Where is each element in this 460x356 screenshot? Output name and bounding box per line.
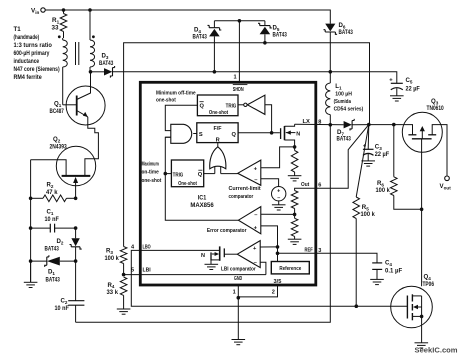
svg-text:(handmade): (handmade)	[14, 34, 40, 41]
wire node to C5	[330, 72, 397, 84]
diode D3 BAT43	[91, 71, 105, 73]
svg-text:+: +	[389, 78, 393, 84]
wire error + input to REF	[261, 226, 278, 262]
comparator LBI	[237, 241, 260, 268]
ground R4	[117, 308, 131, 310]
svg-text:BAT43: BAT43	[337, 136, 352, 143]
svg-text:GND: GND	[234, 276, 242, 282]
node junction ground pins	[237, 296, 241, 300]
node junction R6 top	[392, 123, 396, 127]
transistor Q4 TP06	[391, 286, 433, 328]
svg-text:one-shot: one-shot	[142, 178, 162, 184]
wire Vin top rail	[45, 10, 330, 24]
svg-text:0.1 µF: 0.1 µF	[385, 267, 402, 274]
IC U1 MAX856 boundary	[140, 82, 315, 285]
svg-text:CD54 series): CD54 series)	[334, 107, 364, 113]
wire REF pin 3 to C4	[316, 253, 377, 263]
svg-text:BAT43: BAT43	[193, 34, 208, 41]
node junction D4 anode D3	[213, 70, 217, 74]
wire LBI comparator + input	[260, 246, 277, 248]
svg-text:Q: Q	[231, 132, 236, 138]
node junction divider mid	[293, 213, 297, 217]
svg-text:6: 6	[318, 182, 321, 188]
svg-text:LBI comparator: LBI comparator	[221, 267, 256, 273]
wire REF out	[278, 252, 316, 254]
svg-text:BAT43: BAT43	[99, 60, 114, 67]
node junction R5 bottom Q4 gate	[355, 304, 359, 308]
wire LX pin 8	[295, 123, 344, 126]
ground internal sense resistor	[288, 175, 302, 177]
svg-text:IC1: IC1	[198, 196, 207, 202]
svg-text:TRIG: TRIG	[173, 172, 184, 178]
svg-text:10 nF: 10 nF	[55, 305, 70, 312]
resistor R4 33k	[120, 277, 127, 295]
svg-text:1:3 turns ratio: 1:3 turns ratio	[14, 42, 53, 49]
transformer T1 phasing dot secondary	[92, 35, 95, 38]
current source	[272, 187, 286, 201]
diode D6 BAT43	[325, 24, 335, 32]
OR gate U1d	[210, 147, 226, 169]
svg-text:1: 1	[234, 75, 237, 81]
svg-text:N: N	[201, 253, 205, 259]
flip-flop F/F box	[197, 123, 238, 143]
svg-text:Q: Q	[198, 172, 203, 178]
transistor Q2 2N4393	[56, 146, 95, 185]
svg-text:RM4 ferrite: RM4 ferrite	[14, 74, 43, 81]
svg-text:100 µH: 100 µH	[335, 92, 352, 98]
svg-text:REF: REF	[305, 247, 314, 253]
svg-text:Reference: Reference	[279, 266, 301, 272]
svg-text:Q: Q	[200, 104, 205, 110]
inverter U1b	[244, 103, 247, 106]
node junction R3 R4 LBI	[122, 273, 126, 277]
wire error - input	[261, 213, 295, 215]
svg-text:Out: Out	[301, 182, 309, 188]
svg-text:TN0610: TN0610	[427, 105, 445, 112]
svg-text:8: 8	[318, 120, 321, 126]
resistor R3 100k	[120, 247, 127, 264]
svg-text:LBO: LBO	[143, 245, 152, 251]
ground divider	[288, 238, 302, 240]
resistor divider top	[291, 191, 298, 209]
diode D4 BAT43	[213, 21, 215, 28]
node junction REF top	[276, 245, 280, 249]
ground Q4 source	[415, 342, 429, 344]
node junction D5 anode	[263, 41, 267, 45]
transistor internal LBO N MOSFET	[219, 246, 221, 260]
node junction D1 left	[29, 259, 33, 263]
wire output node to Q3	[369, 124, 403, 126]
wire max one-shot Q to OR	[204, 173, 215, 175]
resistor divider bottom	[294, 214, 296, 218]
wire Q3 to Vout terminal	[441, 125, 447, 176]
svg-text:3/5: 3/5	[274, 279, 282, 285]
terminal Vin	[41, 8, 45, 12]
wire left rail	[30, 160, 32, 282]
svg-text:Minimum off-time: Minimum off-time	[156, 90, 196, 96]
node junction TRIG	[164, 172, 168, 176]
svg-text:One-shot: One-shot	[178, 181, 197, 187]
node junction output node	[367, 123, 371, 127]
resistor R1 33	[63, 10, 65, 14]
capacitor C3 22uF	[367, 125, 370, 150]
svg-text:–: –	[277, 195, 280, 201]
transformer T1 primary winding	[62, 38, 64, 40]
svg-text:1: 1	[233, 289, 236, 295]
transistor internal N switch	[280, 128, 282, 139]
node junction LX L1	[329, 123, 333, 127]
wire Q1 emitter to Q2 drain	[85, 117, 99, 175]
svg-text:BAT43: BAT43	[339, 29, 354, 36]
capacitor C1 10nF	[31, 227, 51, 229]
svg-text:22 µF: 22 µF	[406, 86, 421, 93]
svg-text:TRIG: TRIG	[226, 104, 237, 110]
svg-text:3: 3	[318, 248, 321, 254]
transformer T1 core	[75, 42, 77, 65]
svg-text:33: 33	[52, 25, 60, 32]
comparator error	[238, 207, 260, 234]
svg-text:LBI: LBI	[143, 268, 152, 274]
svg-text:2N4393: 2N4393	[50, 144, 68, 151]
wire error comparator to one-shot TRIG and AND	[165, 137, 238, 220]
ground C5	[390, 95, 404, 97]
wire SHDN pin 1	[214, 20, 265, 22]
wire GND pin 1	[237, 285, 239, 298]
svg-text:One-shot: One-shot	[209, 110, 228, 116]
wire Out pin divider	[295, 188, 316, 190]
svg-text:on-time: on-time	[142, 169, 160, 175]
wire output net top Vout rail	[124, 43, 370, 247]
one-shot U1a box	[197, 95, 238, 116]
ground left rail	[30, 261, 32, 282]
svg-text:BAT43: BAT43	[45, 245, 60, 252]
svg-text:SHDN: SHDN	[233, 87, 244, 93]
wire one-shot Q to AND gate	[165, 105, 197, 130]
ground LBO MOSFET	[205, 263, 219, 265]
svg-text:comparator: comparator	[229, 194, 254, 200]
svg-text:N: N	[296, 131, 300, 137]
svg-text:inductance: inductance	[14, 58, 40, 65]
diode D2 BAT43	[71, 238, 79, 246]
svg-text:100 k: 100 k	[361, 211, 376, 218]
AND gate U1c	[171, 124, 192, 143]
wire C2 bottom rail to LX node riser	[76, 125, 331, 322]
transformer T1 secondary winding	[89, 10, 91, 40]
terminal Vout	[445, 176, 450, 181]
svg-text:BAT43: BAT43	[46, 276, 61, 283]
svg-text:600-µH primary: 600-µH primary	[14, 50, 50, 57]
svg-text:one-shot: one-shot	[156, 98, 176, 104]
wire Q2 gate to D2	[75, 228, 77, 238]
svg-text:Current-limit: Current-limit	[229, 186, 261, 192]
node junction charge pump node	[329, 70, 333, 74]
svg-text:BC487: BC487	[50, 108, 65, 115]
ground C4	[370, 278, 384, 280]
svg-text:TP06: TP06	[423, 281, 435, 288]
wire F/F Q to switch gate	[238, 132, 280, 134]
node junction C1 left	[29, 226, 33, 230]
node junction R6 Q3 source rail	[420, 208, 424, 212]
wire current-limit comparator to OR	[221, 173, 238, 175]
wire output node to Out pin	[316, 125, 369, 189]
comparator current-limit	[238, 160, 261, 185]
wire LBI comparator - input	[260, 262, 266, 274]
diode D1 BAT43	[31, 260, 47, 262]
resistor R6 100k	[393, 125, 395, 177]
svg-text:T1: T1	[14, 26, 22, 33]
wire current-limit + input	[261, 147, 295, 168]
svg-text:MAX856: MAX856	[190, 203, 214, 209]
svg-text:22 µF: 22 µF	[375, 151, 390, 158]
node junction switch source	[293, 145, 297, 149]
reference box	[271, 262, 309, 274]
diode D5 BAT43	[264, 21, 266, 26]
wire D3 to D4 anode	[113, 71, 215, 73]
transformer T1 phasing dot primary	[58, 35, 61, 38]
svg-text:2: 2	[272, 289, 275, 295]
resistor R2 47k	[31, 197, 43, 199]
svg-text:100 k: 100 k	[105, 255, 120, 262]
svg-text:47 k: 47 k	[46, 189, 58, 196]
svg-text:Maximum: Maximum	[142, 161, 159, 167]
resistor R5 100k	[356, 125, 369, 197]
svg-text:LX: LX	[303, 119, 311, 125]
node junction R2 right	[74, 197, 78, 201]
ground center bottom	[237, 298, 239, 340]
node junction T1 secondary bottom	[89, 70, 93, 74]
svg-text:N47 core (Siemens): N47 core (Siemens)	[14, 66, 60, 73]
capacitor C2 10nF	[75, 261, 77, 301]
wire current-limit - input	[261, 179, 279, 187]
svg-text:+: +	[277, 188, 280, 194]
wire LBI pin 5	[124, 274, 266, 276]
svg-text:S: S	[199, 132, 203, 138]
svg-text:SeekIC.com: SeekIC.com	[415, 345, 458, 354]
wire LBO pin 4 to Q4 gate rail	[131, 250, 407, 306]
node junction R2 left	[29, 197, 33, 201]
svg-text:F/F: F/F	[214, 126, 222, 132]
svg-text:BAT43: BAT43	[273, 32, 288, 39]
node junction inverter input gate	[270, 131, 274, 135]
one-shot U1e box	[171, 160, 203, 187]
svg-text:33 k: 33 k	[107, 289, 119, 296]
resistor internal sense	[294, 147, 296, 151]
node junction R1 top	[62, 8, 66, 12]
wire D4 node to charge node	[214, 71, 330, 73]
inductor L1 100uH	[326, 83, 331, 115]
ground C3	[361, 160, 375, 162]
transistor Q3 TN0610	[402, 112, 442, 152]
node junction D1 D2 C2	[74, 259, 78, 263]
wire pin 2	[238, 285, 277, 297]
diode D7 BAT43	[344, 121, 352, 128]
ground current source	[272, 204, 286, 206]
svg-text:Error comparator: Error comparator	[207, 228, 247, 234]
transistor Q1 BC487	[66, 86, 105, 125]
svg-text:(Sumida: (Sumida	[334, 99, 352, 105]
node junction REF wire	[276, 252, 280, 256]
svg-text:100 k: 100 k	[376, 187, 391, 194]
capacitor C4 0.1uF	[372, 262, 382, 264]
wire LBI comparator output to N MOSFET	[224, 253, 237, 255]
node junction C1 right	[74, 226, 78, 230]
svg-text:10 nF: 10 nF	[45, 216, 60, 223]
node junction T1 secondary top	[88, 8, 92, 12]
